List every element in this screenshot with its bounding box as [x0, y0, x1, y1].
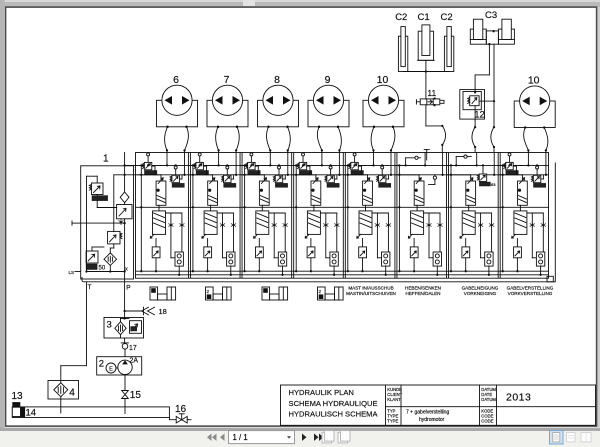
hose wire	[288, 127, 291, 151]
LS bus wire	[114, 174, 549, 176]
inlet compensator valve	[117, 205, 132, 225]
svg-text:1 / 1: 1 / 1	[233, 433, 248, 442]
toolbar multi-page-view button	[567, 433, 576, 442]
section divider	[497, 153, 499, 279]
quick coupling 18	[123, 307, 166, 316]
breather 13	[12, 391, 26, 417]
wire valve 12 down to bank	[474, 106, 476, 127]
cylinder manifold wire	[403, 71, 449, 73]
port stub wire	[218, 150, 220, 152]
svg-text:C3: C3	[485, 10, 497, 21]
top grey toolbar strip	[0, 0, 600, 7]
auxiliary port symbol	[150, 287, 176, 300]
svg-text:15: 15	[130, 390, 142, 401]
svg-text:7 + gabelverstelling: 7 + gabelverstelling	[406, 410, 449, 416]
svg-text:2: 2	[99, 358, 104, 369]
tank bus 2 wire	[136, 274, 549, 276]
valve section 2	[189, 153, 238, 276]
filter unit 3	[104, 317, 144, 338]
tank 14	[12, 407, 169, 419]
svg-text:3: 3	[107, 320, 112, 331]
hose wire	[371, 127, 374, 151]
section divider	[291, 153, 293, 279]
wire T down	[86, 282, 88, 366]
toolbar copy-page icon	[338, 432, 348, 443]
hose wire	[267, 127, 271, 151]
svg-text:10: 10	[528, 75, 540, 87]
svg-text:6: 6	[173, 74, 179, 86]
plugged port marker	[426, 150, 428, 153]
svg-text:T: T	[88, 284, 92, 291]
svg-text:MASTIN/UITSCHUIVEN: MASTIN/UITSCHUIVEN	[346, 291, 396, 296]
svg-text:VORKVERSTELLING: VORKVERSTELLING	[508, 291, 553, 296]
hose wire	[544, 128, 548, 151]
svg-text:18: 18	[159, 307, 167, 316]
port stub wire	[269, 150, 271, 152]
inlet filter diamond	[104, 253, 117, 266]
datum cell labels	[481, 387, 496, 402]
drain valve 16	[169, 404, 191, 423]
svg-text:hydromotor: hydromotor	[419, 417, 445, 423]
title block frame	[281, 385, 596, 425]
hose wire	[317, 127, 322, 151]
cylinder C3	[470, 10, 514, 45]
hydraulic motor 7	[207, 74, 248, 128]
wire P down	[124, 282, 126, 318]
tank bus wire	[136, 270, 549, 272]
valve section 7	[447, 153, 496, 276]
auxiliary port symbol	[206, 287, 232, 300]
svg-text:CODE: CODE	[481, 419, 493, 424]
svg-text:9: 9	[325, 74, 331, 86]
svg-text:50: 50	[99, 265, 106, 271]
hydraulic motor 9	[308, 74, 349, 128]
wire C3 right branch down	[493, 44, 495, 127]
svg-text:HEFFEN/DALEN: HEFFEN/DALEN	[406, 291, 441, 296]
svg-text:2013: 2013	[506, 392, 531, 404]
left grey strip	[0, 0, 5, 431]
valve section 1	[137, 153, 186, 276]
toolbar next-page button	[302, 434, 307, 441]
kode cell labels	[481, 409, 493, 424]
svg-text:7: 7	[224, 74, 230, 86]
wire valve 12 to C3 line	[479, 100, 494, 102]
svg-text:HYDRAULIK PLAN: HYDRAULIK PLAN	[289, 388, 354, 397]
hydraulic motor 6	[157, 74, 198, 128]
mid bus wire	[136, 206, 549, 208]
svg-text:8: 8	[274, 74, 280, 86]
hose wire	[216, 127, 219, 151]
section divider	[239, 153, 241, 279]
port stub wire	[527, 150, 529, 152]
inlet section 1	[81, 154, 134, 280]
toolbar first-page button	[207, 434, 212, 441]
auxiliary port symbol	[318, 287, 344, 300]
pressure bus wire	[125, 164, 549, 166]
bank port box bottom right	[547, 276, 553, 282]
svg-text:E: E	[109, 366, 113, 372]
svg-text:4: 4	[69, 387, 75, 398]
svg-text:SCHEMA HYDRAULIQUE: SCHEMA HYDRAULIQUE	[289, 399, 378, 408]
svg-text:1: 1	[103, 154, 109, 165]
kunde cell labels	[387, 387, 402, 402]
valve bank frame	[136, 153, 549, 279]
toolbar add-page icon	[322, 432, 332, 443]
valve section 3	[240, 153, 289, 276]
hose wire	[236, 127, 239, 151]
top bar notch	[243, 0, 255, 6]
port stub wire	[321, 150, 323, 152]
svg-text:11: 11	[427, 88, 436, 98]
valve section 4	[292, 153, 341, 276]
inlet relief valve 50 bar	[86, 251, 106, 271]
page bottom shadow	[0, 428, 600, 431]
inlet internal wires	[81, 153, 128, 282]
svg-text:12: 12	[474, 109, 485, 120]
toolbar prev-page button	[220, 434, 225, 441]
svg-text:P: P	[126, 284, 130, 291]
svg-text:C1: C1	[418, 12, 430, 23]
valve 12 (pressure reducing valve)	[460, 90, 485, 121]
port stub wire	[166, 150, 168, 152]
hose wire	[185, 127, 189, 151]
svg-text:13: 13	[12, 391, 24, 402]
svg-text:C2: C2	[441, 12, 453, 23]
cylinder C1	[418, 12, 435, 60]
hydraulic motor 10	[363, 74, 404, 128]
wire C1 to valve 11	[425, 72, 427, 99]
toolbar two-page-view button	[581, 433, 591, 442]
valve section 8	[498, 153, 547, 276]
svg-text:VORKNEIGING: VORKNEIGING	[464, 291, 497, 296]
svg-text:DATUM: DATUM	[481, 397, 496, 402]
section divider	[187, 153, 189, 279]
valve section 6	[395, 153, 444, 276]
hose wire	[338, 127, 341, 151]
inlet relief valve	[87, 176, 108, 200]
check valve 17	[121, 338, 137, 357]
hose wire	[391, 127, 395, 151]
toolbar single-page-view button selected	[550, 431, 564, 445]
return filter 4	[48, 381, 79, 400]
cylinder C2 right	[441, 12, 454, 71]
section divider	[342, 153, 344, 279]
svg-text:C2: C2	[395, 12, 407, 23]
shutoff valve 15	[122, 375, 142, 414]
hydraulic motor 10	[514, 75, 555, 129]
bottom toolbar background	[0, 431, 600, 447]
svg-text:10: 10	[377, 74, 389, 86]
gauge port wire	[72, 222, 81, 224]
auxiliary port symbol	[262, 287, 288, 300]
bank outer bottom boundary wire	[82, 163, 555, 282]
inlet pilot valve	[108, 231, 122, 244]
svg-text:KLANT: KLANT	[387, 397, 401, 402]
svg-text:HYDRAULISCH SCHEMA: HYDRAULISCH SCHEMA	[289, 409, 379, 418]
svg-text:TYPE: TYPE	[387, 419, 398, 424]
wire T to filter 4	[61, 365, 87, 367]
hose wire	[165, 127, 168, 151]
toolbar last-page button	[314, 434, 319, 441]
cylinder C2 left	[395, 12, 408, 71]
valve section 5	[344, 153, 393, 276]
hose wire	[524, 128, 529, 151]
port stub wire	[373, 150, 375, 152]
hydraulic motor 8	[258, 74, 299, 128]
toolbar page combo box	[229, 431, 295, 444]
typ cell labels	[387, 409, 398, 424]
valve 11 (lowering brake valve)	[416, 88, 444, 106]
section divider	[446, 153, 448, 279]
right grey strip	[598, 7, 600, 427]
section divider	[394, 153, 396, 279]
wire C3 left branch to valve 12	[488, 44, 490, 75]
power unit 2 with pump 2A	[97, 357, 142, 375]
svg-text:17: 17	[129, 345, 137, 352]
wire valve 11 to bank	[425, 105, 427, 126]
svg-text:14: 14	[26, 408, 37, 419]
svg-text:x: x	[125, 267, 128, 273]
type value text	[406, 410, 449, 424]
inlet orifice diamond	[120, 192, 129, 203]
svg-text:LS: LS	[69, 270, 75, 275]
